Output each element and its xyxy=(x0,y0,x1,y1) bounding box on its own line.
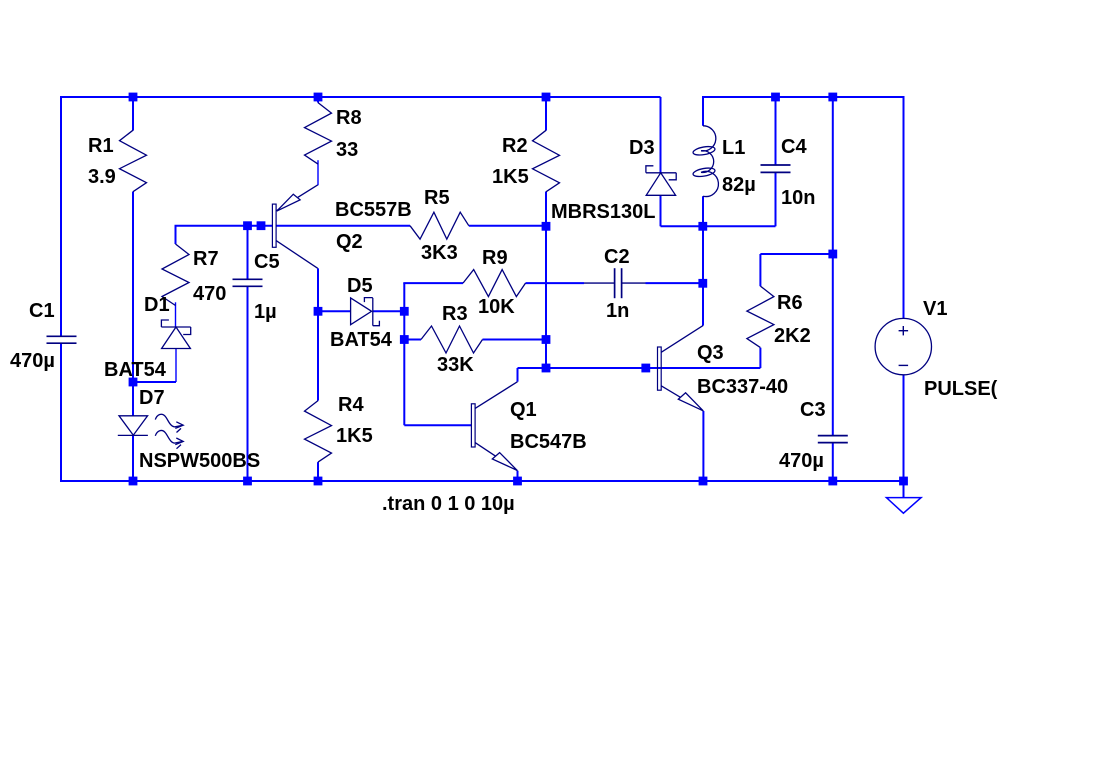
wire C4 top lead xyxy=(775,97,777,165)
node C4 top xyxy=(771,93,780,102)
svg-text:D1: D1 xyxy=(144,294,170,316)
wire left edge lower xyxy=(60,343,62,482)
wire L1 top lead xyxy=(702,96,704,126)
svg-text:R2: R2 xyxy=(502,135,528,157)
wire R8 top lead xyxy=(317,97,319,103)
svg-text:BC557B: BC557B xyxy=(335,199,412,221)
node R8 top xyxy=(314,93,323,102)
svg-text:C2: C2 xyxy=(604,246,630,268)
svg-text:MBRS130L: MBRS130L xyxy=(551,201,655,223)
inductor L1 xyxy=(692,126,755,197)
resistor R6 xyxy=(747,286,811,348)
voltage source V1 xyxy=(875,298,998,400)
resistor R5 xyxy=(410,187,469,264)
capacitor C2 xyxy=(584,246,646,322)
wire V1 bottom lead xyxy=(903,375,905,481)
wire L1 bottom lead xyxy=(702,196,704,226)
wire D1 bottom elbow xyxy=(133,349,176,383)
svg-text:10K: 10K xyxy=(478,296,515,318)
wire C2 right to node xyxy=(646,282,704,284)
diode D3 xyxy=(551,137,676,223)
capacitor C1 xyxy=(10,300,77,372)
node rail C3 xyxy=(828,477,837,486)
wire R1 bottom to node xyxy=(132,192,134,382)
wire Q1 collector stub xyxy=(517,368,519,382)
svg-text:Q2: Q2 xyxy=(336,231,363,253)
node rail V1 xyxy=(899,477,908,486)
directive .tran xyxy=(382,493,515,515)
svg-text:C4: C4 xyxy=(781,136,807,158)
svg-text:Q1: Q1 xyxy=(510,399,537,421)
svg-text:NSPW500BS: NSPW500BS xyxy=(139,450,260,472)
wire V1 top lead xyxy=(903,96,905,319)
node D1 anode xyxy=(129,378,138,387)
svg-text:BC547B: BC547B xyxy=(510,431,587,453)
svg-text:2K2: 2K2 xyxy=(774,325,811,347)
node Q2 collector xyxy=(314,307,323,316)
svg-text:33K: 33K xyxy=(437,354,474,376)
wire x703 vertical xyxy=(702,226,704,325)
wire R5 to R2 node xyxy=(469,225,546,227)
wire R2 bottom lead xyxy=(545,192,547,227)
svg-text:R4: R4 xyxy=(338,394,364,416)
wire R4 top lead xyxy=(317,311,319,400)
wire Q2 collector vertical xyxy=(317,268,319,311)
svg-text:D5: D5 xyxy=(347,275,373,297)
node Q2 base xyxy=(257,221,266,230)
node C5 top xyxy=(243,221,252,230)
node x833 top xyxy=(828,93,837,102)
wire R2 top lead xyxy=(545,97,547,131)
wire D3 top lead xyxy=(660,97,662,173)
node L1 bottom xyxy=(698,222,707,231)
svg-text:R7: R7 xyxy=(193,248,219,270)
svg-text:470: 470 xyxy=(193,283,226,305)
wire x833 upper xyxy=(832,97,834,436)
wire D7 to bottom rail xyxy=(132,435,134,481)
node rail Q3 xyxy=(699,477,708,486)
svg-text:R8: R8 xyxy=(336,107,362,129)
svg-text:3.9: 3.9 xyxy=(88,166,116,188)
wire left bus x404 xyxy=(403,283,405,425)
resistor R3 xyxy=(421,303,483,376)
wire R7 top elbow xyxy=(175,226,273,244)
diode D5 xyxy=(330,275,393,351)
svg-text:82µ: 82µ xyxy=(722,174,756,196)
svg-text:PULSE(: PULSE( xyxy=(924,378,998,400)
wire top rail left segment xyxy=(61,96,661,98)
wire C3 bottom lead xyxy=(832,443,834,481)
wire Q3 emitter stub xyxy=(702,411,704,481)
node R3 left xyxy=(400,335,409,344)
svg-text:BAT54: BAT54 xyxy=(104,359,167,381)
svg-text:Q3: Q3 xyxy=(697,342,724,364)
resistor R7 xyxy=(162,244,226,306)
svg-text:V1: V1 xyxy=(923,298,947,320)
node feedback x546 xyxy=(542,364,551,373)
wire R1 top lead xyxy=(132,97,134,131)
node R1 top xyxy=(129,93,138,102)
capacitor C5 xyxy=(233,251,280,323)
svg-text:R3: R3 xyxy=(442,303,468,325)
wire R9 right to C2 xyxy=(526,282,585,284)
wire y226 run xyxy=(661,225,776,227)
node R6 top xyxy=(828,250,837,259)
svg-text:R6: R6 xyxy=(777,292,803,314)
wire D3 bottom lead xyxy=(660,195,662,226)
svg-text:BC337-40: BC337-40 xyxy=(697,376,788,398)
node rail D7 xyxy=(129,477,138,486)
resistor R9 xyxy=(463,247,526,318)
wire R6 top elbow xyxy=(760,254,832,286)
wire left edge upper xyxy=(60,96,62,336)
node R2 bottom xyxy=(542,222,551,231)
wire R4 bottom lead xyxy=(317,462,319,481)
svg-text:R5: R5 xyxy=(424,187,450,209)
capacitor C4 xyxy=(761,136,816,209)
node C2 right xyxy=(698,279,707,288)
wire Q1 emitter stub xyxy=(517,471,519,481)
wire C4 bottom lead xyxy=(775,172,777,226)
svg-text:.tran 0 1 0 10µ: .tran 0 1 0 10µ xyxy=(382,493,515,515)
diode D1 xyxy=(104,294,191,381)
wire R3 left lead xyxy=(404,339,421,341)
svg-text:470µ: 470µ xyxy=(779,450,824,472)
wire C5 top lead xyxy=(247,226,249,280)
resistor R2 xyxy=(492,130,560,192)
wire top rail right segment xyxy=(703,96,904,98)
svg-text:D3: D3 xyxy=(629,137,655,159)
node R3 right xyxy=(542,335,551,344)
node Q3 base xyxy=(641,364,650,373)
svg-text:470µ: 470µ xyxy=(10,350,55,372)
svg-text:L1: L1 xyxy=(722,137,745,159)
svg-text:1K5: 1K5 xyxy=(336,425,373,447)
svg-text:1K5: 1K5 xyxy=(492,166,529,188)
svg-text:R9: R9 xyxy=(482,247,508,269)
wire R8 bottom lead xyxy=(317,160,319,185)
resistor R4 xyxy=(305,394,373,462)
svg-text:33: 33 xyxy=(336,139,358,161)
wire C5 bottom to rail xyxy=(247,286,249,481)
wire Q1 base xyxy=(404,424,471,426)
svg-text:C5: C5 xyxy=(254,251,280,273)
node rail Q1 xyxy=(513,477,522,486)
wire Q2 base right to R5 xyxy=(276,225,410,227)
wire R3 right lead xyxy=(483,339,547,341)
wire node to D5 anode xyxy=(318,310,351,312)
wire bottom rail xyxy=(61,480,904,482)
svg-text:D7: D7 xyxy=(139,387,165,409)
resistor R1 xyxy=(88,130,147,192)
wire R9 left lead xyxy=(403,282,463,284)
wire node to D7 xyxy=(132,382,134,416)
capacitor C3 xyxy=(779,399,848,472)
transistor Q2 xyxy=(272,185,411,268)
wire y368 run xyxy=(518,367,761,369)
svg-text:1n: 1n xyxy=(606,300,629,322)
svg-text:10n: 10n xyxy=(781,187,815,209)
wire x546 vertical xyxy=(545,226,547,368)
wire R6 bottom lead xyxy=(759,348,761,368)
svg-text:1µ: 1µ xyxy=(254,301,277,323)
node rail C5 xyxy=(243,477,252,486)
svg-text:3K3: 3K3 xyxy=(421,242,458,264)
wire R7 bottom to D1 xyxy=(175,302,177,327)
resistor R8 xyxy=(305,103,362,165)
node R2 top xyxy=(542,93,551,102)
svg-text:C1: C1 xyxy=(29,300,55,322)
node D5 cathode xyxy=(400,307,409,316)
svg-text:C3: C3 xyxy=(800,399,826,421)
ground xyxy=(886,481,921,513)
LED D7 xyxy=(118,387,260,472)
transistor Q1 xyxy=(471,382,586,471)
svg-text:R1: R1 xyxy=(88,135,114,157)
transistor Q3 xyxy=(658,326,789,411)
svg-text:BAT54: BAT54 xyxy=(330,329,393,351)
node rail R4 xyxy=(314,477,323,486)
wire D5 cathode to node xyxy=(373,310,405,312)
